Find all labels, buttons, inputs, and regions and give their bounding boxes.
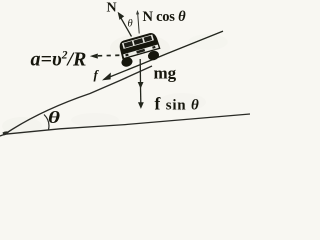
car right wheel [147, 50, 160, 62]
car bumper stripe [123, 44, 159, 57]
f sin theta arrow (vertical component of friction) [140, 86, 142, 103]
friction force arrow f (down the slope) [103, 73, 110, 79]
car body [118, 31, 161, 59]
ground line (horizontal road base) [0, 114, 250, 136]
incline line (banked road surface) [5, 66, 152, 134]
weight mg arrow (vertical, below car) [139, 59, 141, 83]
car window panes [124, 41, 134, 48]
bumper end marks [125, 54, 128, 57]
apex ink blob [3, 131, 10, 135]
angle theta arc at apex [44, 115, 49, 130]
car window band [122, 34, 154, 48]
car left wheel [120, 56, 133, 68]
road upper edge line under car [104, 31, 223, 79]
vertical reference line (N cos theta direction) [138, 14, 140, 34]
scan mottle [2, 34, 228, 135]
svg-text:N: N [107, 1, 117, 16]
svg-text:a=υ2/R: a=υ2/R [31, 49, 87, 71]
centripetal acceleration dashed arrow [90, 54, 98, 59]
svg-text:N cos θ: N cos θ [143, 9, 187, 25]
normal force N arrow (perpendicular to incline) [120, 16, 132, 37]
license plate on bumper [136, 49, 145, 54]
svg-text:mg: mg [154, 64, 177, 83]
car (rear view, tilted with the incline) [116, 31, 163, 69]
svg-text:θ: θ [48, 108, 60, 127]
svg-text:θ: θ [128, 19, 133, 30]
